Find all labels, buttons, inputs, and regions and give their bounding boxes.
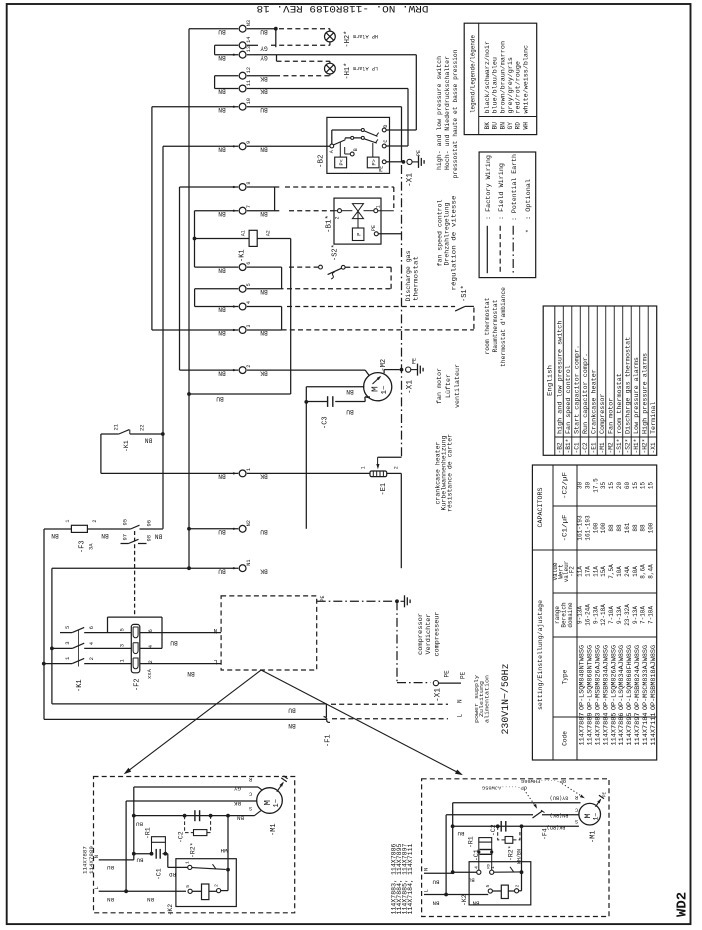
svg-text:Verdichter: Verdichter [425,613,432,654]
svg-text:161-193: 161-193 [584,515,591,541]
svg-text:WH/BN: WH/BN [517,849,523,864]
run capacitor C2 (box1) [194,810,196,821]
svg-text:5: 5 [119,628,126,631]
compressor motor M1 (box2) [579,803,601,825]
B2 terminal A [330,144,334,148]
svg-text:114X7886: 114X7886 [618,712,625,745]
terminal X1:5 [239,285,246,292]
terminal X1:10 [239,103,246,110]
B1 triac symbol [352,204,363,212]
svg-text:: Optional: : Optional [525,179,532,220]
svg-text:-H1*: -H1* [344,63,352,80]
lamp H1 low pressure alarm [325,63,336,74]
svg-text:Run capacitor compr.: Run capacitor compr. [582,353,589,434]
start resistor R1 (box1) [151,842,153,853]
terminal X1:4 [239,303,246,310]
svg-text:thermostat d'ambiance: thermostat d'ambiance [500,287,507,367]
wire: row12 left [215,75,239,77]
svg-text:15: 15 [640,482,647,490]
wire: dashed lamp feed C [277,60,330,62]
pressure switch B2 box [327,117,390,173]
svg-text:5: 5 [246,283,252,286]
svg-text:P>: P> [371,159,377,165]
wire: dashed lamp return B (row14) [271,44,330,46]
terminal X1:3 [239,327,246,334]
svg-text:88: 88 [616,524,623,532]
svg-text:-K1: -K1 [239,249,247,262]
svg-text:English: English [547,365,554,396]
svg-text:A1: A1 [241,230,247,236]
svg-text:-R2*: -R2* [508,845,515,861]
svg-text:11A: 11A [592,566,599,577]
junction 4-wire box2 [451,870,455,874]
svg-text:100: 100 [600,522,607,533]
bleed resistor R2 (box2, dashed) [498,826,505,840]
svg-text:blue/blau/bleu: blue/blau/bleu [492,57,499,114]
svg-text:7-10A: 7-10A [640,606,647,624]
wire: row9 left [163,145,238,147]
K2 terminal 4 box2 [477,870,481,874]
svg-text:1: 1 [361,466,367,469]
svg-text:BN: BN [51,532,59,539]
svg-text:1: 1 [65,520,71,523]
wire: bracket rows 4-3 right [281,307,283,331]
svg-text:N2: N2 [246,520,252,526]
svg-text:GY: GY [234,785,241,792]
junction bus/N1 [187,566,191,570]
svg-text:PE: PE [444,670,451,678]
wire: N3 row [189,28,238,30]
terminal X1:N2 [239,525,246,532]
wire: dashed N to X1 [331,703,448,705]
svg-text:OP-LSQM868FHW8SG: OP-LSQM868FHW8SG [626,645,633,710]
wire: row5 left [195,288,239,290]
svg-text:Hoch- und Niederdruckschalter: Hoch- und Niederdruckschalter [444,56,451,170]
wire: M1-S lead [134,815,255,817]
svg-text:-C2: -C2 [178,831,185,843]
svg-text:-K1: -K1 [123,440,130,452]
svg-text:red/rot/rouge: red/rot/rouge [515,61,522,114]
svg-text:BU: BU [170,639,178,646]
wire: row8 left [180,186,239,188]
svg-text:-K2: -K2 [461,894,468,906]
svg-text:5: 5 [64,626,71,629]
svg-text:high and low pressure switch: high and low pressure switch [556,320,563,434]
junction coil A1 [193,237,197,241]
svg-text:OP-MSCM833AJW8SG: OP-MSCM833AJW8SG [642,645,649,710]
svg-text:S: S [249,805,252,811]
svg-text:-C2: -C2 [582,442,589,453]
wire: C vertical to L (box1) [125,801,127,891]
svg-text:white/weiss/blanc: white/weiss/blanc [522,45,529,114]
svg-text:BU: BU [216,395,224,402]
B2 terminal PE [382,160,386,164]
svg-text:BU: BU [136,857,143,864]
svg-text:N3: N3 [246,20,252,26]
wire: left vertical (box2) [452,803,454,874]
wire: N3 stub down [275,29,277,48]
svg-text:BN: BN [288,722,296,729]
svg-text:9-13A: 9-13A [592,606,599,624]
wire: dashed L to X1 [332,718,448,720]
svg-text:2: 2 [214,884,220,887]
wire: M1-C lead with F4 (box2) [446,814,533,816]
svg-text:2: 2 [92,520,98,523]
wire: B1 PE to bus [378,233,401,235]
wire: F3 row [44,528,71,530]
junction 22/bus [161,432,165,436]
svg-text:-F3: -F3 [79,540,87,553]
svg-text:résistance de carter: résistance de carter [447,434,454,512]
wire: riser 13-D [415,55,417,130]
svg-text:1: 1 [185,861,191,864]
svg-text:12: 12 [246,67,252,73]
wire: PE potential-earth bus (dash-dot) [401,165,403,457]
svg-text:BN: BN [346,388,354,395]
start capacitor C1 box2 [480,849,493,851]
detail circuit box 2 (dashed) [422,779,609,917]
wire: BU neutral bus x=189 [188,29,190,569]
svg-text:-X1: -X1 [407,380,415,394]
svg-text:BU: BU [457,830,464,837]
svg-text:-X1: -X1 [407,173,415,187]
svg-text:BK: BK [234,800,241,807]
svg-text:DRW. NO. -118R0189 REV. 18: DRW. NO. -118R0189 REV. 18 [257,2,429,13]
svg-text:-F2: -F2 [134,678,142,691]
wire: N riser x=51.9 [51,568,53,704]
svg-text:Fan motor: Fan motor [607,397,614,434]
svg-text:9: 9 [246,141,252,144]
C1/R1 ladder (box2) [478,842,480,870]
svg-text:14: 14 [246,37,252,43]
wire: dashed lamp feed A [279,28,330,30]
thermal protector F4 [533,811,543,818]
svg-text:88: 88 [640,524,647,532]
svg-text:BU: BU [432,878,439,885]
svg-text:: Factory Wiring: : Factory Wiring [485,155,492,220]
K2 terminal 1 box2 [490,870,494,874]
svg-text:-M2: -M2 [607,442,614,453]
wire: E1 PE branch with arrow [377,457,379,466]
start relay K2 box1 [176,859,236,907]
svg-text:114X7889: 114X7889 [88,846,95,874]
wire: row8 right solid [247,186,279,188]
svg-text:Start capacitor compr.: Start capacitor compr. [573,345,580,434]
wire: row7 right solid [247,210,279,212]
svg-text:114X7895: 114X7895 [626,712,633,745]
svg-text:BN: BN [101,532,109,539]
svg-text:room thermostat: room thermostat [484,297,491,354]
svg-text:-B1*: -B1* [565,439,572,454]
svg-text:-E1: -E1 [590,442,597,453]
svg-text:BN(BK): BN(BK) [550,812,569,818]
svg-text:RD: RD [515,122,522,130]
svg-text:-M1: -M1 [599,442,606,453]
wire: WH/BN vertical (box2) [521,826,523,891]
fuse disconnect F1 [325,704,327,717]
wire: row1 to heater [247,472,370,474]
svg-text:M: M [263,800,273,805]
fan speed control B1 box [334,198,381,244]
svg-text:1: 1 [375,205,381,208]
svg-text:230V1N~/50Hz: 230V1N~/50Hz [500,664,512,735]
svg-text:compressor: compressor [417,613,424,655]
svg-text:M: M [370,386,381,392]
wire: B2 C to riser [386,145,408,147]
svg-text:-B2: -B2 [318,154,326,168]
junction contact node box2 [520,870,524,874]
wire: row14 right solid [247,44,258,46]
wire: row11 right long BK to B2 C riser [247,88,408,90]
X1 PE terminal (M2) [406,367,411,372]
wire: row4 left [195,306,239,308]
English component table [543,306,657,455]
wire: dashed row7 to B1-2 [289,210,334,212]
svg-text:Drehzahlregelung: Drehzahlregelung [443,202,450,265]
wire: row10 right [247,106,402,108]
wire: L entry (box1) [99,890,186,892]
B2 terminal B [350,152,354,156]
svg-text:9-13A: 9-13A [632,606,639,624]
svg-text:11A: 11A [577,566,584,577]
svg-text:PE: PE [416,150,422,156]
terminal X1:12 [239,72,246,79]
wire: compressor PE dash-dot [317,600,397,602]
M1 PE arrow (box1) [277,783,283,792]
control fuse F3 [71,525,87,532]
wire: N to compressor [140,632,221,634]
svg-text:régulation de vitesse: régulation de vitesse [451,195,458,290]
svg-text:PE: PE [320,595,326,601]
wire: dashed row4 to S1 [287,306,455,308]
svg-text:PE: PE [412,358,418,364]
svg-text:OP-LSQM826AJW8SG: OP-LSQM826AJW8SG [610,645,617,710]
svg-text:8,6A: 8,6A [640,564,647,579]
svg-text:OP-.....AJW85G: OP-.....AJW85G [482,785,527,791]
svg-text:11: 11 [246,80,252,86]
svg-text:-C1: -C1 [156,868,163,880]
svg-text:Compressor: Compressor [599,393,606,434]
wire: bus row9-96 x=163 [162,146,164,528]
svg-text:L: L [213,658,217,665]
junction contact/coil-2 box1 [226,868,230,872]
X1 PE terminal (supply) [433,681,438,686]
svg-text:21: 21 [113,423,120,430]
start resistor R1 box2 [479,838,492,843]
svg-text:-R1: -R1 [468,836,475,848]
K2 contact blade box1 [192,868,226,870]
K2 coil box2 [492,890,501,892]
junction C3/BN/neutral [304,400,308,404]
wire: row3 right solid [247,329,282,331]
wire: E1-2 down to N1 [387,472,402,474]
thermostat switch S1 [455,306,465,311]
wiring legend box [479,152,536,278]
settings and capacitors table [532,465,656,760]
contactor coil K1 A1-A2 [249,230,257,246]
svg-text:LP Alarm: LP Alarm [353,65,378,71]
svg-text:-M1: -M1 [270,823,278,836]
wire: pole5 lead [60,632,72,634]
svg-text:-R1: -R1 [145,827,152,839]
svg-text:-F2: -F2 [569,566,576,577]
svg-text:5: 5 [185,885,191,888]
svg-text:5: 5 [485,885,491,888]
svg-text:-M1: -M1 [590,830,598,843]
svg-text:compresseur: compresseur [434,611,441,656]
svg-text:BU: BU [288,707,296,714]
svg-text:domaine: domaine [567,602,574,628]
run capacitor C2 (box2) [500,821,502,832]
X1 PE terminal (B2) [407,159,412,164]
svg-text:-C2: -C2 [490,824,497,836]
wire: M2 BN lead [306,386,364,388]
thermostat switch S2 [319,265,323,269]
svg-text:-C1/µF: -C1/µF [562,514,569,541]
B2 C blade [364,139,377,143]
B2 B stub [344,147,346,154]
lamp H2 high pressure alarm [325,31,336,42]
svg-text:-R2*: -R2* [190,842,197,858]
K2 terminal 5 box1 [188,889,192,893]
svg-text:BU: BU [492,122,499,130]
svg-text:114X7184: 114X7184 [642,712,649,745]
svg-text:high- and low pressure switch: high- and low pressure switch [436,56,443,170]
svg-text:BU: BU [260,528,268,535]
svg-text:100: 100 [648,522,655,533]
svg-text:-H1*: -H1* [633,439,640,454]
svg-text:brown/braun/marron: brown/braun/marron [499,41,506,114]
wire: row5 right solid [247,288,284,290]
bleed resistor R2 (box1, dashed branch) [185,816,194,833]
wire: row10 left [152,106,238,108]
start capacitor C1 (box1) [134,853,152,855]
svg-text:10: 10 [246,98,252,104]
svg-text:114X7884: 114X7884 [602,712,609,745]
relay K2 box2 [469,862,531,905]
wire: bracket rows 14-13 [214,45,216,54]
svg-text:114X7883: 114X7883 [595,712,602,745]
terminal X1:11 [239,85,246,92]
svg-text:RD: RD [169,871,176,878]
svg-text:P<: P< [339,159,345,165]
K2 coil box1 [192,890,201,892]
wire: riser row10 to PE node [401,107,403,162]
wire: M1-R lead (box2) [453,802,581,804]
wire: 96 riser up to row9 bus [162,527,164,530]
wire: fan neutral down to N2 [305,402,307,529]
wire: M2 BU lead via C3 [365,396,370,398]
svg-text:95: 95 [122,519,129,526]
wire: dashed S2 return to row5 [345,266,391,268]
svg-text:BN: BN [145,437,153,444]
svg-text:114X7184, 114X7111: 114X7184, 114X7111 [407,843,414,914]
svg-text:Lüfter: Lüfter [445,374,452,398]
mechanical linkage dashed to F2 [134,531,136,616]
run capacitor C3 [327,396,329,407]
svg-text:-C1: -C1 [573,442,580,453]
overload contact 97-98 (spare) [121,543,129,545]
svg-text:S: S [575,818,578,824]
B1 P actuator box [352,228,364,241]
svg-text:B: B [353,148,359,151]
wire: bracket rows 6-5 right [281,267,283,289]
svg-text:R: R [249,776,252,782]
svg-text:BN: BN [147,896,154,903]
M2 arrow [373,377,381,384]
svg-text:-C2/µF: -C2/µF [562,472,569,499]
svg-text:24A: 24A [624,566,631,577]
svg-text:R: R [575,794,578,800]
svg-text:Crankcase heater: Crankcase heater [590,369,597,434]
svg-text:16-24A: 16-24A [584,604,591,626]
svg-text:Raumthermostat: Raumthermostat [492,299,499,352]
terminal X1:13 [239,51,246,58]
svg-text:3: 3 [119,644,126,647]
svg-text:98: 98 [146,535,153,542]
svg-text:L: L [423,889,430,892]
svg-text:black/schwarz/noir: black/schwarz/noir [484,41,491,114]
svg-text:Discharge gas thermostat: Discharge gas thermostat [624,336,631,434]
svg-text:-H2*: -H2* [344,31,352,48]
wire: WH vertical S to K2 (box1) [227,816,229,891]
wire: row3 left [152,329,238,331]
svg-text:setting/Einstellung/ajustage: setting/Einstellung/ajustage [537,600,544,710]
wire: bracket rows 5-4 x=194.6 [194,289,196,307]
svg-text:xxA: xxA [146,668,153,679]
svg-text:20: 20 [616,482,623,490]
K2 terminal 2 box2 [515,889,519,893]
svg-text:-F1: -F1 [325,734,333,747]
svg-text:: Field Wiring: : Field Wiring [498,163,505,220]
svg-text:alimentation: alimentation [484,674,491,723]
svg-text:114X7887: 114X7887 [579,712,586,745]
junction R1C1 node box1 [132,852,136,856]
svg-text:OP-MSBM834AJW8SG: OP-MSBM834AJW8SG [602,645,609,710]
wire: left vertical R/S/node (box1) [133,787,135,860]
svg-text:*: * [525,229,532,233]
junction bus/N2 [187,527,191,531]
wire: hook row13 to dashed C [276,55,278,62]
svg-text:3: 3 [64,641,71,644]
wire: N3 right to junction [247,28,276,30]
svg-text:OP-.....FHW66G: OP-.....FHW66G [521,778,566,784]
B2 P-greater actuator box [372,143,374,157]
svg-text:15: 15 [608,482,615,490]
svg-text:2: 2 [335,216,341,219]
svg-text:OP-MSBM824AJW8SG: OP-MSBM824AJW8SG [634,645,641,710]
svg-text:Fan speed control: Fan speed control [565,365,572,434]
svg-text:-S2*: -S2* [624,439,631,454]
wire: N entry (box2) [424,872,453,874]
wire: C1 node to K2-1 [165,853,167,855]
wire: jumper rows 8-7 (B1 bypass) [274,187,276,211]
svg-text:13: 13 [246,46,252,52]
wire: F2 jumper loop [108,616,163,618]
svg-text:10A: 10A [632,566,639,577]
svg-text:OP-MSBM818AJW8SG: OP-MSBM818AJW8SG [650,645,657,710]
svg-text:1~: 1~ [592,813,599,821]
svg-text:OP-LSQM848NTW8SG: OP-LSQM848NTW8SG [579,645,586,710]
svg-text:PE: PE [371,225,377,231]
wire: row9 to B2 A [247,145,330,147]
B1 terminal 2 [338,209,342,213]
svg-text:17A: 17A [584,566,591,577]
svg-text:GY: GY [260,45,268,52]
svg-text:OP-LSQM868NTW8SG: OP-LSQM868NTW8SG [587,645,594,710]
wire: B2 D to riser [386,129,416,131]
svg-text:D: D [383,125,389,128]
